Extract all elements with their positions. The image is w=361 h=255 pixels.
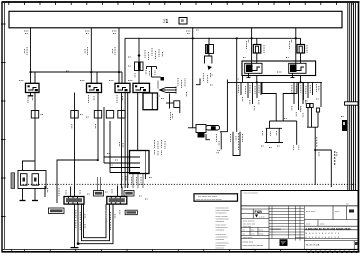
left column: [241, 206, 358, 250]
junction blob: [77, 243, 80, 245]
tag T4: [124, 191, 134, 197]
connector box on bus: [179, 18, 187, 25]
wire drop mid rail: [236, 38, 238, 132]
long wire x121.5: [121, 93, 123, 189]
connector row CB3: [94, 93, 101, 161]
lower trunk right: [227, 81, 322, 83]
svg-text:xxxx xxxxxx: xxxx xxxxxx: [243, 221, 255, 223]
labels near X5 block: [107, 140, 165, 185]
svg-text:NL 09 13 10A: NL 09 13 10A: [306, 244, 320, 247]
title block: [241, 191, 358, 250]
U loop: [267, 128, 280, 142]
harness bundle right: [348, 3, 356, 191]
wires into XR from above: [117, 186, 119, 197]
labels right cluster and fuses: [210, 38, 344, 118]
connector row CB1: [31, 93, 38, 171]
wire to connector comb: [157, 81, 159, 89]
wire drop to rail left: [124, 38, 126, 83]
wire drop B from bus: [90, 28, 92, 83]
svg-text:xxxxxxxxxx: xxxxxxxxxx: [216, 213, 228, 215]
switch S2: [87, 83, 102, 92]
svg-text:31: 31: [163, 19, 169, 25]
svg-text:xxx xxxxx xxx xxxxx: xxx xxxxx xxx xxxxx: [198, 196, 218, 198]
connector block X5: [104, 151, 149, 174]
svg-text:xxxx xxx: xxxx xxx: [243, 226, 252, 228]
labels above switch row: [19, 80, 133, 82]
relay cluster K5: [188, 125, 220, 140]
svg-text:xxxx xxxx xxx xxxxxx: xxxx xxxx xxx xxxxxx: [243, 245, 264, 247]
wire main drop D: [192, 28, 194, 128]
trunk stub to switch S3: [121, 72, 123, 83]
tag T1: [49, 208, 65, 214]
bottom connector block XR: [107, 197, 127, 205]
right section: [304, 206, 358, 250]
relay K3: [245, 63, 262, 77]
labels bottom area: [45, 186, 148, 230]
fuse F4: [297, 38, 305, 63]
long wire x125.1: [124, 93, 126, 189]
revision ladder: [269, 206, 304, 250]
cluster connector marks: [306, 104, 319, 113]
connector comb X1: [160, 87, 177, 94]
ground stub G2: [32, 189, 38, 201]
bundle tie bar: [345, 102, 359, 105]
twisted pair marks: [334, 151, 336, 166]
svg-text:0 5 0 8 4 1 0 0 1 5 4: 0 5 0 8 4 1 0 0 1 5 4: [306, 237, 340, 239]
svg-text:xxxxxxxx: xxxxxxxx: [216, 230, 226, 232]
stub wires below trunk (right group): [294, 82, 313, 110]
labels mid right: [217, 119, 337, 158]
switch lever SW: [139, 67, 161, 84]
trunk stub to switch S2: [96, 72, 98, 83]
label tag vertical: [11, 173, 15, 189]
staircase wires center: [262, 82, 276, 121]
svg-text:F&B: F&B: [255, 210, 263, 214]
U loop inner: [84, 204, 107, 238]
wires to tag T3: [97, 177, 99, 191]
svg-text:xxxxxxxx: xxxxxxxx: [271, 228, 282, 231]
ground wire with foot: [71, 204, 79, 248]
svg-text:xxx xx xxxxxxx: xxx xx xxxxxxx: [244, 193, 259, 195]
long wire x127.7: [127, 93, 129, 189]
relay K4: [277, 63, 306, 77]
big box right (relay module): [242, 61, 316, 76]
switch S4: [133, 83, 150, 92]
right cluster wires: [303, 82, 321, 150]
wire down x296.7: [296, 121, 298, 145]
wire jog left into K2: [23, 161, 36, 171]
H junction: [270, 120, 297, 122]
narrow U: [233, 132, 240, 156]
labels around fuse F1 / switch middle: [128, 48, 187, 120]
U loop mid: [82, 204, 110, 241]
trunk up-stub: [226, 80, 228, 83]
logo: [280, 239, 288, 246]
svg-text:x xxx xxx xx xx xx xxx xxxxx x: x xxx xxx xx xx xx xxx xxxxx xxxx: [306, 226, 352, 230]
connector below F2: [203, 56, 212, 83]
tag T3: [94, 191, 104, 197]
switch T element: [166, 94, 180, 114]
trunk stub to switch S1: [34, 72, 36, 83]
notes text column: [216, 208, 231, 250]
trunk wire upper-left: [31, 71, 123, 73]
connector row CB5: [118, 111, 125, 119]
box-to-trunk link: [242, 76, 244, 83]
connector row CB2: [71, 93, 78, 197]
bottom connector block XL: [64, 197, 84, 205]
ground stub G1: [20, 189, 26, 201]
wire from trunk left end down: [220, 82, 227, 132]
wire stub L: [196, 78, 200, 84]
switch S1: [26, 83, 40, 92]
relay box K2: [18, 171, 46, 189]
wire drop E: [251, 28, 253, 63]
svg-text:x.x.xx: x.x.xx: [259, 216, 265, 218]
tag T2: [125, 210, 137, 215]
wire drop A from bus: [30, 28, 32, 83]
separator dotted line: [20, 183, 357, 185]
power bus bar 31: [9, 11, 342, 28]
svg-text:xxxxxxxx: xxxxxxxx: [216, 239, 226, 241]
stub wires below trunk (left group): [241, 82, 261, 104]
fuse F1: [135, 38, 144, 71]
wire drop F: [295, 28, 297, 63]
svg-text:xxxx xxx: xxxx xxx: [216, 248, 225, 250]
svg-text:xxxx xx xx xx xx xxx xxxxx: xxxx xx xx xx xx xxx xxxxx: [196, 199, 222, 201]
svg-text:xxxx xxxx: xxxx xxxx: [306, 211, 316, 213]
connector box near bundle: [342, 120, 347, 131]
svg-text:xxxxx xxxx: xxxxx xxxx: [243, 242, 254, 244]
note box: [194, 194, 238, 201]
svg-text:xxxx xxxx: xxxx xxxx: [243, 237, 253, 239]
block output stubs: [132, 174, 134, 189]
U loop outer: [78, 204, 113, 244]
svg-text:xxx xxxx xxx: xxx xxxx xxx: [243, 223, 256, 225]
labels below switch row: [28, 95, 123, 129]
terminator below S1: [28, 93, 33, 96]
wire jog x57: [57, 160, 98, 203]
relay K1 box: [143, 93, 158, 110]
wire branch right: [315, 150, 331, 187]
svg-text:B 0 0 4 1 0 0 0 8 1 5: B 0 0 4 1 0 0 0 8 1 5: [306, 233, 340, 235]
fuse F2: [206, 38, 214, 56]
svg-text:xxxxxxxx: xxxxxxxx: [216, 221, 226, 223]
scallops bottom right: [307, 251, 359, 253]
connector row CB4: [104, 107, 114, 173]
feed rail wire: [125, 37, 301, 39]
long wire x137.7: [137, 93, 139, 151]
wire drop C from bus: [118, 28, 120, 83]
wire labels (tiny code text): [24, 30, 199, 71]
switch S3: [115, 83, 130, 92]
fuse F3: [253, 38, 260, 63]
junction dot: [161, 77, 165, 81]
